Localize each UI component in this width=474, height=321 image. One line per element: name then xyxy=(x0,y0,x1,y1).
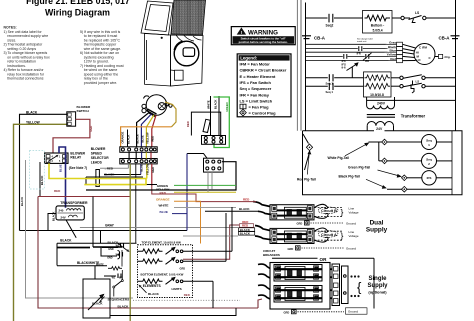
svg-text:BLACK: BLACK xyxy=(213,100,217,109)
breaker pair 2 xyxy=(274,286,322,303)
TITLE xyxy=(26,0,130,17)
svg-text:}: } xyxy=(341,207,344,217)
svg-text:thermostat connections: thermostat connections xyxy=(7,77,43,81)
heater elements box 10.9/10.8 xyxy=(364,72,392,97)
circuit breaker A box xyxy=(270,228,314,243)
svg-text:Seq: Seq xyxy=(426,139,432,143)
sequencer coil Seq2 circle xyxy=(379,153,452,168)
svg-text:RED: RED xyxy=(151,167,155,173)
svg-text:Figure 21. E1EB 015, 017: Figure 21. E1EB 015, 017 xyxy=(26,0,130,6)
svg-text:GRD: GRD xyxy=(180,267,186,270)
speed lead color labels xyxy=(156,184,170,214)
svg-text:RED: RED xyxy=(243,197,250,201)
svg-text:Black Pig-Tail: Black Pig-Tail xyxy=(339,175,360,179)
svg-text:(optional): (optional) xyxy=(368,290,387,295)
fan plug symbol xyxy=(240,104,246,109)
svg-text:BOTTOM ELEMENT, 5.0/5.4 KW: BOTTOM ELEMENT, 5.0/5.4 KW xyxy=(141,273,184,277)
wire gray long mid xyxy=(80,227,238,229)
pig-tail labels xyxy=(297,156,370,182)
blower relay box xyxy=(45,153,68,163)
svg-text:WHITE: WHITE xyxy=(206,100,210,109)
svg-text:WHITE: WHITE xyxy=(159,204,169,208)
svg-text:1: 1 xyxy=(428,143,430,147)
wire white lead xyxy=(174,207,236,209)
svg-text:Seq 1: Seq 1 xyxy=(326,90,334,94)
svg-text:position before servicing the: position before servicing the furnace. xyxy=(239,40,288,44)
svg-text:IFS = Fan Switch: IFS = Fan Switch xyxy=(240,80,272,85)
svg-text:Voltage: Voltage xyxy=(349,234,359,238)
svg-text:Seq = Sequencer: Seq = Sequencer xyxy=(240,86,272,91)
svg-text:{: { xyxy=(357,280,362,295)
svg-text:Dual: Dual xyxy=(370,220,384,227)
svg-text:GRD: GRD xyxy=(297,222,303,226)
24V pig-tail junction box xyxy=(303,131,463,195)
dots xyxy=(350,275,359,297)
svg-text:RED: RED xyxy=(186,121,190,127)
svg-text:LIMITS: LIMITS xyxy=(172,287,182,291)
jumper wires xyxy=(86,176,143,178)
svg-text:Seq 1: Seq 1 xyxy=(326,81,334,85)
svg-text:GRAY: GRAY xyxy=(105,223,115,227)
contact Seq2 xyxy=(328,14,330,23)
sequencer section frame xyxy=(92,197,94,248)
furnace blower opening xyxy=(174,41,199,66)
rung seq1 top xyxy=(306,74,364,90)
furnace cabinet front face xyxy=(145,34,171,87)
svg-text:WARNING: WARNING xyxy=(248,29,278,36)
breaker CB-A left xyxy=(302,36,311,39)
wire red long to breakers xyxy=(38,196,130,198)
wire gray left vertical xyxy=(26,160,134,298)
svg-text:SWITCH: SWITCH xyxy=(77,109,90,113)
single supply feed hooks xyxy=(258,264,270,299)
svg-text:-Org.: -Org. xyxy=(444,55,451,59)
svg-text:TOP ELEMENT, 10.9/10.8 KW: TOP ELEMENT, 10.9/10.8 KW xyxy=(142,240,182,244)
wire green lead xyxy=(174,184,236,186)
svg-text:IFR: IFR xyxy=(357,52,361,55)
svg-text:IFS: IFS xyxy=(427,176,432,180)
svg-text:BLACK: BLACK xyxy=(92,302,103,306)
svg-text:BLACK: BLACK xyxy=(20,197,24,206)
single supply side connector strip xyxy=(330,264,348,306)
svg-text:GRD: GRD xyxy=(284,311,290,315)
svg-text:BLACK: BLACK xyxy=(104,173,115,177)
wire yellow lead xyxy=(174,191,236,193)
fan plug strip lower xyxy=(120,159,157,164)
svg-text:ELEMENTS: ELEMENTS xyxy=(143,284,162,288)
blower speed selector wires below plug xyxy=(127,164,129,168)
svg-text:10.9/10.8: 10.9/10.8 xyxy=(370,93,384,97)
wire yellow relay loop xyxy=(49,163,146,184)
svg-text:RED: RED xyxy=(89,126,93,132)
jumper plug xyxy=(96,170,100,187)
svg-text:inside unit: inside unit xyxy=(357,40,367,43)
svg-text:CBRKR = Circuit Breaker: CBRKR = Circuit Breaker xyxy=(240,68,287,73)
svg-text:Legend:: Legend: xyxy=(240,56,258,61)
wire black transformer left xyxy=(48,214,56,231)
svg-text:ORANGE: ORANGE xyxy=(120,131,124,143)
sequencer coil Seq1 circle xyxy=(369,135,453,150)
svg-text:BLUE: BLUE xyxy=(140,164,144,171)
contact IFS cap xyxy=(343,54,345,59)
plug interconnect pins xyxy=(129,152,151,158)
svg-text:Single: Single xyxy=(368,276,387,282)
svg-text:BLUE: BLUE xyxy=(160,210,168,214)
svg-text:24V: 24V xyxy=(61,215,66,219)
svg-text:BREAKERS: BREAKERS xyxy=(263,253,280,257)
svg-text:Red: Red xyxy=(390,57,396,61)
FURNACE CABINET DRAWING xyxy=(141,0,206,86)
svg-text:Red Pig-Tail: Red Pig-Tail xyxy=(297,178,316,182)
svg-text:LS: LS xyxy=(416,80,420,84)
svg-text:CB-A: CB-A xyxy=(314,36,326,41)
svg-text:ORANGE: ORANGE xyxy=(156,198,170,202)
furnace control door xyxy=(141,1,173,35)
svg-text:SELECTOR: SELECTOR xyxy=(91,156,110,160)
svg-text:BLACK: BLACK xyxy=(148,292,160,296)
connector block lower xyxy=(204,158,224,172)
svg-text:BLACK: BLACK xyxy=(108,240,120,244)
svg-text:BLACK: BLACK xyxy=(136,134,140,143)
transformer 240V primary xyxy=(367,97,456,131)
svg-text:Seq: Seq xyxy=(426,157,432,161)
transformer box low voltage xyxy=(56,206,84,220)
svg-text:SPEED: SPEED xyxy=(91,152,103,156)
svg-text:Supply: Supply xyxy=(367,283,388,289)
wire top rung xyxy=(306,17,328,19)
door switch assembly xyxy=(191,112,220,135)
right rail L2 xyxy=(455,0,457,100)
svg-text:BLACK: BLACK xyxy=(240,232,251,236)
svg-text:→RED: →RED xyxy=(104,166,113,170)
fan switch IFS circle xyxy=(407,171,452,185)
svg-text:(See Note 7): (See Note 7) xyxy=(69,166,87,170)
sequencer frame lines xyxy=(93,246,122,248)
control plug diamond on bottom wire xyxy=(402,186,408,192)
bottom rung wire xyxy=(387,188,452,190)
heater element resistor top xyxy=(138,207,233,254)
svg-text:= Control Plug: = Control Plug xyxy=(249,111,277,116)
control plug symbol xyxy=(240,109,247,116)
fan switch IFS arrow xyxy=(347,63,358,78)
svg-text:RELAY: RELAY xyxy=(70,156,82,160)
LEGEND BOX xyxy=(237,54,291,117)
control plug diamond on seq1 wire xyxy=(382,139,388,145)
svg-text:RED: RED xyxy=(54,189,61,193)
svg-text:Ground: Ground xyxy=(348,310,358,314)
wire vertical to seq2 rung xyxy=(378,142,380,161)
svg-text:TRANSFORMER: TRANSFORMER xyxy=(60,201,88,205)
fan plug connector pins xyxy=(397,42,403,63)
svg-text:Transformer: Transformer xyxy=(401,113,426,118)
svg-text:BLACK: BLACK xyxy=(52,212,56,221)
heater element resistor bottom xyxy=(138,278,214,309)
fan relay box lower left xyxy=(83,266,110,318)
motor feed wires xyxy=(306,44,397,60)
wire thick from lower block xyxy=(86,162,236,190)
wire to lower block xyxy=(187,154,207,159)
svg-text:LEADS: LEADS xyxy=(91,160,103,164)
svg-text:BLACK: BLACK xyxy=(40,176,44,185)
svg-text:Wiring Diagram: Wiring Diagram xyxy=(45,7,110,17)
divider line xyxy=(296,0,298,131)
furnace cabinet side face xyxy=(171,35,204,86)
svg-text:240: 240 xyxy=(59,209,64,213)
connector block upper xyxy=(202,136,226,145)
contact IFR 2 xyxy=(365,54,367,59)
svg-text:BLACK: BLACK xyxy=(239,207,250,211)
motor lead labels xyxy=(385,41,397,61)
svg-text:Seq2: Seq2 xyxy=(326,24,334,28)
svg-text:WHITE: WHITE xyxy=(96,263,104,266)
svg-text:E = Heater Element: E = Heater Element xyxy=(240,74,276,79)
warning triangle icon xyxy=(237,27,246,34)
wire blue relay to transformer xyxy=(59,147,66,208)
block lower stubs xyxy=(207,172,209,192)
circuit breaker B box xyxy=(270,205,314,220)
svg-text:Ground: Ground xyxy=(346,246,356,250)
svg-text:C IFM: C IFM xyxy=(419,46,427,50)
pigtail curls circuit B xyxy=(315,204,329,218)
svg-text:= Fan Plug: = Fan Plug xyxy=(249,104,270,109)
svg-text:Supply: Supply xyxy=(366,227,388,234)
wire black long mid xyxy=(20,230,188,232)
control plug diamond on left rail xyxy=(303,134,310,170)
control plug diamond on seq2 wire xyxy=(382,158,388,164)
svg-text:BLACK: BLACK xyxy=(127,135,131,144)
svg-text:BLACK: BLACK xyxy=(26,110,38,114)
svg-text:}: } xyxy=(341,231,344,241)
label blower speed selector leads xyxy=(91,147,110,164)
svg-text:SEQUENCERS: SEQUENCERS xyxy=(108,297,130,301)
sequencer symbols xyxy=(96,245,123,280)
blower switch connector xyxy=(67,112,76,126)
svg-text:Ground: Ground xyxy=(346,221,356,225)
wire green ground xyxy=(214,97,230,148)
elements dashed box xyxy=(138,245,193,298)
heater element box bottom 5.0/5.4 xyxy=(363,11,393,34)
WARNING BOX xyxy=(231,27,295,45)
svg-text:Voltage: Voltage xyxy=(349,210,359,214)
second black wire to plug xyxy=(127,130,129,147)
svg-text:Bottom -: Bottom - xyxy=(371,24,385,28)
svg-text:Green Pig-Tail: Green Pig-Tail xyxy=(348,166,370,170)
svg-text:GND: GND xyxy=(108,248,114,251)
orange wire from motor xyxy=(165,102,176,127)
wire maroon jumpers to breaker labels xyxy=(183,225,239,259)
svg-text:2: 2 xyxy=(428,162,430,166)
breaker pair 1 xyxy=(274,265,322,282)
DUAL SUPPLY CIRCUIT BREAKERS xyxy=(239,197,359,225)
svg-text:RED: RED xyxy=(184,293,190,297)
wire black bottom xyxy=(110,308,236,316)
contact IFR xyxy=(358,46,360,51)
svg-text:BLACK: BLACK xyxy=(60,239,72,243)
svg-text:240V: 240V xyxy=(377,101,386,105)
svg-text:YELLOW: YELLOW xyxy=(146,163,150,175)
rung seq1 bottom xyxy=(306,85,328,87)
svg-text:Switch circuit breakers to the: Switch circuit breakers to the "off" xyxy=(241,37,287,41)
wire olive vertical mid xyxy=(129,164,131,321)
fan plug strip upper xyxy=(120,147,157,153)
wire white to block xyxy=(210,96,212,136)
wire gray dotted lower xyxy=(133,299,240,301)
wire orange lead xyxy=(174,201,201,243)
svg-text:YELLOW: YELLOW xyxy=(145,132,149,144)
note see danger label xyxy=(357,38,373,44)
svg-text:9-6: 9-6 xyxy=(342,66,346,70)
wire red from blower switch to relay xyxy=(53,119,90,153)
faint service box xyxy=(30,151,45,190)
motor lead labels xyxy=(120,131,154,144)
svg-text:RED: RED xyxy=(160,191,167,195)
svg-text:LS = Limit Switch: LS = Limit Switch xyxy=(240,99,273,104)
blower motor drawing xyxy=(142,95,172,117)
svg-text:BLUE: BLUE xyxy=(59,164,63,172)
svg-text:IFR = Fan Relay: IFR = Fan Relay xyxy=(240,92,270,97)
svg-text:provided jumper wire.: provided jumper wire. xyxy=(84,81,117,85)
wire maroon left vertical xyxy=(38,197,258,309)
furnace hatched coil panel xyxy=(171,0,206,35)
svg-text:OR: OR xyxy=(320,257,328,262)
pigtail curls circuit A xyxy=(315,228,329,242)
svg-text:RED: RED xyxy=(151,136,155,142)
NOTES xyxy=(4,26,124,85)
furnace junction box xyxy=(175,70,184,80)
svg-text:GND: GND xyxy=(107,257,113,260)
wire black transformer diagonal xyxy=(66,220,76,238)
svg-text:BLUE: BLUE xyxy=(140,135,144,143)
wire blue lead xyxy=(172,213,187,215)
svg-text:BLOWER: BLOWER xyxy=(91,147,106,151)
wire black horizontal top xyxy=(20,114,68,230)
svg-text:24V: 24V xyxy=(376,127,383,131)
svg-text:White Pig-Tail: White Pig-Tail xyxy=(328,156,350,160)
limit switch LS right rungs xyxy=(391,75,456,93)
svg-text:IFM = Fan Motor: IFM = Fan Motor xyxy=(240,61,271,66)
wire yellow horizontal top xyxy=(14,124,68,321)
svg-text:5.0/5.4: 5.0/5.4 xyxy=(372,29,382,33)
svg-text:IFR: IFR xyxy=(365,60,369,63)
svg-text:BLACK: BLACK xyxy=(118,305,130,309)
heater element resistor mid xyxy=(138,213,227,264)
control plug diamond on IFS wire xyxy=(402,175,408,181)
contact circles and limit switch LS top xyxy=(401,16,404,19)
motor IFM circle xyxy=(403,44,456,65)
motor lead wires down to plug xyxy=(137,113,149,147)
svg-text:YELLOW: YELLOW xyxy=(26,120,40,124)
svg-text:GRD: GRD xyxy=(288,247,294,251)
svg-text:CB-A: CB-A xyxy=(439,36,451,41)
svg-text:GREEN: GREEN xyxy=(225,102,229,112)
sequencer contact bars xyxy=(118,243,124,278)
SINGLE SUPPLY BREAKER xyxy=(270,263,330,310)
RIGHT LADDER SCHEMATIC xyxy=(297,0,455,131)
left rail L1 xyxy=(305,3,307,131)
